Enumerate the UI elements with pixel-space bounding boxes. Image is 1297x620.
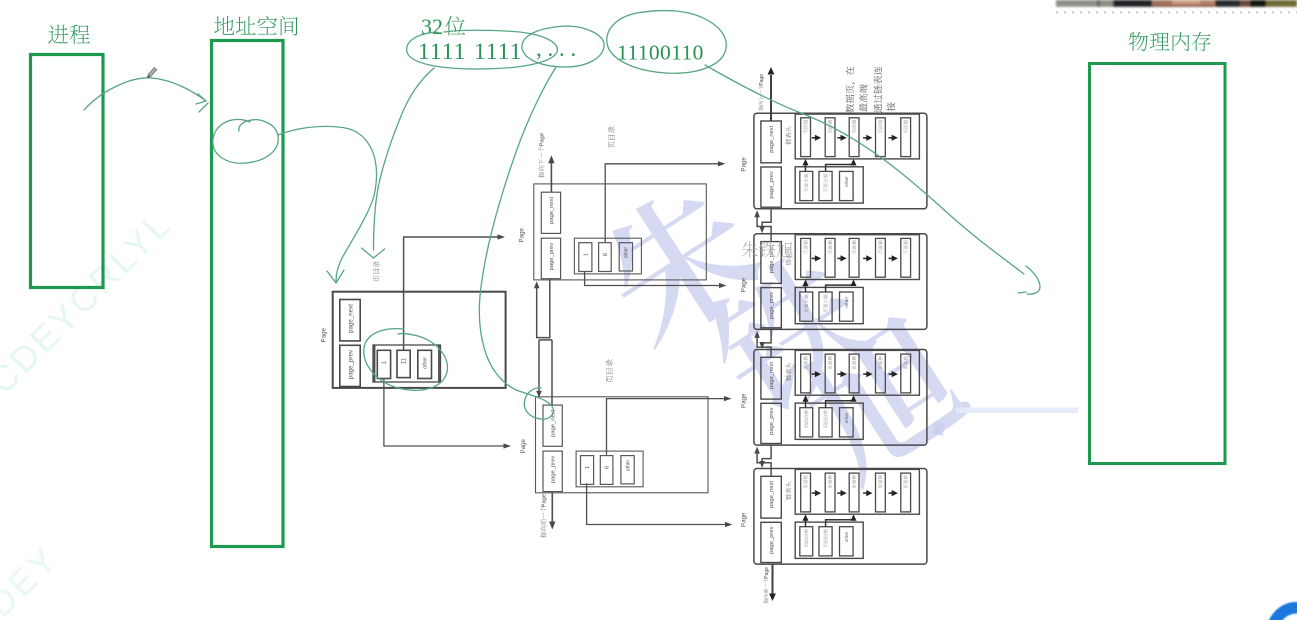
central upper outer box xyxy=(534,184,707,280)
cell 11 xyxy=(397,350,410,377)
svg-text:other: other xyxy=(844,296,850,307)
page node 4 xyxy=(876,473,886,512)
free node 1 xyxy=(800,408,813,437)
svg-text:page_prev: page_prev xyxy=(769,292,775,319)
free node 2 xyxy=(819,292,832,321)
链表头 label xyxy=(785,126,791,144)
link arrow xyxy=(863,137,868,139)
connector central upper-lower xyxy=(537,279,552,405)
wire from left box cell 1 down-right to Page xyxy=(384,379,504,447)
page node 3 xyxy=(849,238,859,277)
svg-text:page_next: page_next xyxy=(348,304,355,333)
page_prev cell xyxy=(761,288,781,328)
link arrow xyxy=(863,257,868,259)
ellipse around 1111 1111 xyxy=(407,30,558,69)
svg-text:page_prev: page_prev xyxy=(549,243,555,270)
page node 1 xyxy=(801,238,811,277)
svg-text:Page: Page xyxy=(741,157,748,172)
central lower outer box xyxy=(536,397,709,493)
svg-text:Page: Page xyxy=(321,327,328,342)
free node 1 xyxy=(800,527,813,556)
top linked pages box xyxy=(795,350,919,395)
svg-text:Page: Page xyxy=(520,438,527,453)
svg-text:page_prev: page_prev xyxy=(551,456,557,483)
bottom free pages box xyxy=(795,287,863,323)
cell other xyxy=(621,456,634,484)
svg-text:page_next: page_next xyxy=(769,481,775,508)
right group G2 outer xyxy=(754,234,927,330)
svg-text:Page: Page xyxy=(741,512,748,527)
link arrow xyxy=(837,137,842,139)
cell mid xyxy=(600,456,613,485)
page_prev cell xyxy=(761,403,781,443)
cell other xyxy=(418,350,432,378)
inner record container xyxy=(576,451,643,487)
arrow free1 up xyxy=(805,161,807,171)
curve from e1 down to box (arrow) xyxy=(374,68,435,250)
curve from e2 down to lower central group xyxy=(479,67,556,390)
svg-text:Page: Page xyxy=(542,494,548,508)
page_next cell xyxy=(761,476,781,518)
dotted selection line under webcam xyxy=(1056,11,1297,13)
page node 4 xyxy=(876,238,886,277)
up arrow 指向下一个Page xyxy=(550,161,552,192)
wavy line blob to page-dir box xyxy=(278,126,376,281)
wire upper cell-1 to Page (G2) xyxy=(585,272,719,286)
left Page box (页目录项) xyxy=(333,292,506,388)
gray watermark text 朱铁旭 xyxy=(742,241,793,257)
free node 3 xyxy=(840,527,854,556)
svg-text:page_next: page_next xyxy=(551,409,557,436)
ellipse around 11100110 xyxy=(607,11,727,74)
page node 5 xyxy=(901,473,911,512)
wire upper cell-mid to Page (G1) xyxy=(605,164,718,243)
right group G1 outer xyxy=(754,113,927,209)
svg-text:other: other xyxy=(423,357,429,369)
page node 4 xyxy=(876,354,886,393)
page node 2 xyxy=(825,473,835,512)
svg-text:other: other xyxy=(844,531,850,542)
page node 2 xyxy=(825,354,835,393)
链表头 label xyxy=(785,363,791,381)
G1 top arrow 指向上一个Page xyxy=(770,75,772,121)
svg-text:other: other xyxy=(624,247,630,259)
svg-text:page_next: page_next xyxy=(549,197,555,224)
free node 3 xyxy=(840,171,854,200)
free node 1 xyxy=(800,292,813,321)
page node 5 xyxy=(901,238,911,277)
page node 5 xyxy=(901,118,911,157)
wire from left box cell 11 up-right to Page xyxy=(404,237,498,350)
svg-text:other: other xyxy=(625,459,631,471)
arrow free2 up-right xyxy=(826,282,854,292)
bottom free pages box xyxy=(795,403,863,439)
free node 3 xyxy=(840,408,854,437)
page_next cell xyxy=(761,242,781,284)
svg-text:Page: Page xyxy=(519,227,526,242)
faint blue band right xyxy=(956,408,1078,414)
svg-text:6: 6 xyxy=(605,466,611,469)
地址空间 label xyxy=(214,16,298,36)
arrow free2 up-right xyxy=(826,517,854,527)
link arrow xyxy=(812,492,817,494)
page_next cell xyxy=(543,405,562,446)
top linked pages box xyxy=(795,114,919,159)
链表头 label xyxy=(785,482,791,500)
inner record container xyxy=(574,238,641,274)
caption 数据页在最高端通过链表连接 xyxy=(846,66,856,112)
wire lower cell-1 to Page (G4) xyxy=(587,483,725,524)
cell other xyxy=(619,243,632,271)
free node 1 xyxy=(800,171,813,200)
blob circle in 地址空间 xyxy=(213,119,278,163)
svg-text:page_prev: page_prev xyxy=(769,171,775,198)
svg-text:Page: Page xyxy=(759,74,765,86)
arrow free2 up-right xyxy=(826,398,854,408)
物理内存 label xyxy=(1129,32,1211,51)
svg-text:Page: Page xyxy=(741,277,748,292)
ellipse around dots xyxy=(522,26,604,67)
svg-text:other: other xyxy=(844,412,850,423)
进程 rectangle xyxy=(31,55,104,288)
bottom free pages box xyxy=(795,522,863,558)
svg-text:11: 11 xyxy=(402,357,408,364)
page node 1 xyxy=(801,354,811,393)
link arrow xyxy=(863,492,868,494)
arrow free1 up xyxy=(805,517,807,527)
svg-text:Page: Page xyxy=(741,393,748,408)
pencil cursor xyxy=(146,67,157,79)
页目录 label above left box xyxy=(373,261,379,281)
down arrow 指向前一个Page xyxy=(551,492,553,523)
page node 3 xyxy=(849,118,859,157)
svg-text:page_prev: page_prev xyxy=(769,407,775,434)
link arrow xyxy=(812,257,817,259)
page_next cell xyxy=(340,300,360,341)
connectors between right groups xyxy=(757,209,771,242)
free node 3 xyxy=(840,292,854,321)
链表头 label xyxy=(785,247,791,265)
link arrow xyxy=(812,137,817,139)
link arrow xyxy=(837,373,842,375)
arrow free1 up xyxy=(805,282,807,292)
inner record container xyxy=(373,345,441,382)
cell mid xyxy=(599,243,612,272)
page node 5 xyxy=(901,354,911,393)
free node 2 xyxy=(819,527,832,556)
arrow free2 up-right xyxy=(826,161,854,171)
page_prev cell xyxy=(340,345,360,386)
svg-text:page_next: page_next xyxy=(769,125,775,152)
page node 2 xyxy=(825,118,835,157)
svg-text:, . . .: , . . . xyxy=(536,36,576,61)
page node 3 xyxy=(849,473,859,512)
svg-text:Page: Page xyxy=(764,567,770,579)
page node 2 xyxy=(825,238,835,277)
link arrow xyxy=(863,373,868,375)
svg-text:page_next: page_next xyxy=(769,362,775,389)
cell 1 xyxy=(579,243,592,272)
page_prev cell xyxy=(761,167,781,207)
webcam overlay strip xyxy=(1056,0,1297,7)
big blue watermark strokes xyxy=(584,167,977,490)
ellipse around left box cells xyxy=(364,329,448,391)
link arrow xyxy=(889,492,894,494)
G4 bottom arrow 指向前一个Page xyxy=(772,564,774,594)
svg-text:32: 32 xyxy=(421,14,443,39)
link arrow xyxy=(889,257,894,259)
page_prev cell xyxy=(761,522,781,562)
link arrow xyxy=(837,492,842,494)
cell 1 xyxy=(581,456,594,485)
link arrow xyxy=(837,257,842,259)
link arrow xyxy=(812,373,817,375)
page node 4 xyxy=(876,118,886,157)
top linked pages box xyxy=(795,469,919,514)
svg-text:Page: Page xyxy=(540,133,546,147)
svg-text:6: 6 xyxy=(603,253,609,256)
page_prev cell xyxy=(543,451,562,492)
page_next cell xyxy=(541,192,560,233)
right group G4 outer xyxy=(754,469,927,565)
arc arrow 进程 to 地址空间 xyxy=(84,78,206,110)
page_next cell xyxy=(761,121,781,163)
地址空间 rectangle xyxy=(212,41,284,547)
page node 1 xyxy=(801,473,811,512)
blue logo arc bottom-right xyxy=(1272,608,1297,620)
link arrow xyxy=(889,137,894,139)
page node 1 xyxy=(801,118,811,157)
page_next cell xyxy=(761,357,781,399)
物理内存 rectangle xyxy=(1090,64,1226,464)
svg-text:11100110: 11100110 xyxy=(617,41,704,65)
svg-text:1: 1 xyxy=(583,253,589,256)
right group G3 outer xyxy=(754,350,927,446)
svg-text:1111: 1111 xyxy=(474,39,522,65)
svg-text:page_prev: page_prev xyxy=(769,526,775,553)
link arrow xyxy=(889,373,894,375)
arrow free1 up xyxy=(805,398,807,408)
cell 1 xyxy=(377,350,390,378)
bottom free pages box xyxy=(795,167,863,203)
curve from e3 down-right to 物理内存 xyxy=(705,65,1024,274)
进程 label xyxy=(48,25,90,44)
svg-text:other: other xyxy=(844,176,850,187)
page node 3 xyxy=(849,354,859,393)
page_prev cell xyxy=(541,238,560,279)
top linked pages box xyxy=(795,235,919,280)
svg-text:1111: 1111 xyxy=(418,39,466,65)
svg-text:page_prev: page_prev xyxy=(348,349,355,379)
svg-text:1: 1 xyxy=(585,466,591,469)
wire lower cell-mid to Page (G3) xyxy=(607,399,725,455)
free node 2 xyxy=(819,171,832,200)
free node 2 xyxy=(819,408,832,437)
